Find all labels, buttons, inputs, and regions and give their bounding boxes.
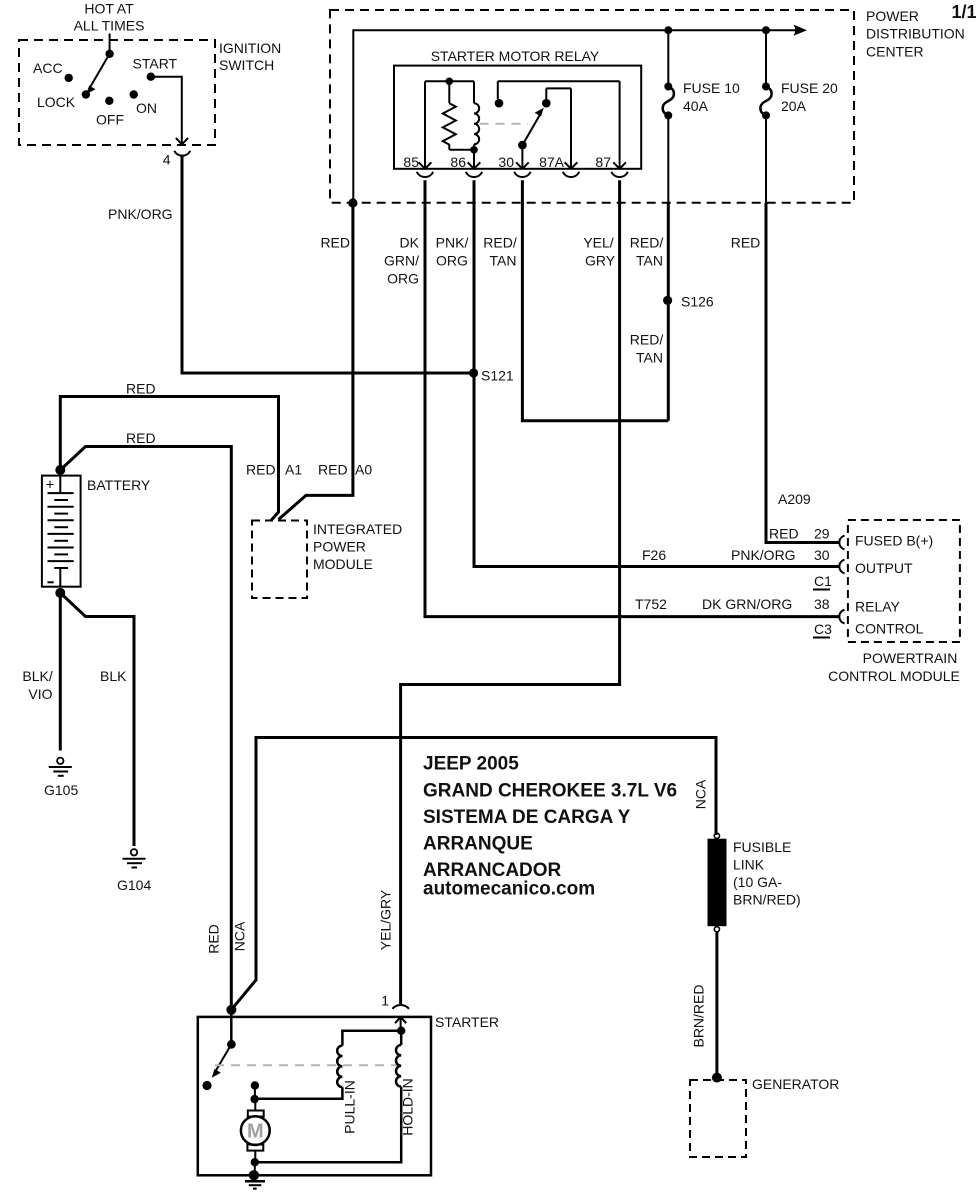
label RED | A1: [246, 462, 302, 478]
svg-text:30: 30: [498, 154, 514, 170]
starter solenoid switch arm: [212, 1040, 236, 1078]
svg-text:RELAY: RELAY: [855, 599, 901, 615]
ignition switch enclosure (dashed): [19, 40, 215, 145]
svg-text:GENERATOR: GENERATOR: [752, 1076, 839, 1092]
label DK GRN/ORG (3 lines): [384, 235, 420, 287]
label RELAY CONTROL: [855, 599, 924, 637]
starter solenoid contact (open): [202, 1081, 211, 1090]
svg-text:GRN/: GRN/: [384, 253, 419, 269]
svg-text:YEL/GRY: YEL/GRY: [378, 889, 394, 950]
svg-text:STARTER MOTOR RELAY: STARTER MOTOR RELAY: [431, 48, 600, 64]
wire DK GRN/ORG relay pin85 to PCM pin38: [425, 180, 839, 616]
relay internal wiring pin85 to coil: [425, 81, 474, 169]
svg-text:SWITCH: SWITCH: [219, 57, 274, 73]
svg-text:+: +: [46, 477, 55, 494]
wire pin1 to pull-in coil: [342, 1031, 401, 1046]
label RED (rotated): [206, 924, 222, 954]
svg-text:1: 1: [381, 993, 389, 1009]
fusible link FL1 (10 GA BRN/RED): [708, 833, 727, 932]
connector pin 1 of starter: [381, 993, 409, 1009]
svg-text:ON: ON: [136, 100, 157, 116]
svg-text:F26: F26: [642, 547, 666, 563]
ground G105: [44, 758, 78, 798]
svg-text:POWER: POWER: [313, 539, 366, 555]
svg-text:DISTRIBUTION: DISTRIBUTION: [866, 26, 965, 42]
svg-text:RED: RED: [769, 526, 799, 542]
svg-text:DK GRN/ORG: DK GRN/ORG: [702, 596, 792, 612]
junction bus to fuse 10: [664, 26, 672, 34]
wire starter B+ to solenoid contact: [230, 1010, 233, 1045]
svg-text:DK: DK: [400, 235, 420, 251]
wire PNK/ORG relay pin86 to PCM pin30: [474, 180, 839, 566]
wire RED fuse20 to PCM pin29: [766, 203, 839, 543]
PCM connector pin 29: [839, 536, 844, 550]
wire NCA starter junction to fusible link: [231, 738, 716, 1010]
wire YEL/GRY relay pin87 to starter pin1: [401, 180, 620, 1004]
svg-text:CONTROL: CONTROL: [855, 621, 924, 637]
label RED/TAN (pin30): [483, 235, 517, 269]
label RED/TAN (fuse 10): [630, 235, 664, 269]
label NCA (left): [232, 921, 248, 951]
wire BLK/VIO battery to G105: [59, 593, 62, 751]
label POWER DISTRIBUTION CENTER: [866, 8, 965, 60]
svg-text:BATTERY: BATTERY: [87, 477, 151, 493]
svg-text:S121: S121: [481, 368, 514, 384]
junction RED/NCA at starter B+: [226, 1005, 236, 1015]
label HOT AT ALL TIMES: [74, 1, 145, 34]
svg-text:S126: S126: [681, 294, 714, 310]
svg-text:CENTER: CENTER: [866, 44, 924, 60]
svg-text:TAN: TAN: [636, 350, 663, 366]
wire RED/TAN fuse10 to splice S126: [667, 203, 670, 421]
relay pin 30: [498, 154, 530, 177]
label RED | A0: [318, 462, 372, 478]
svg-text:85: 85: [403, 154, 419, 170]
svg-text:C1: C1: [814, 573, 832, 589]
svg-text:NCA: NCA: [693, 779, 709, 809]
starter case: [198, 1014, 499, 1175]
relay pin 86: [450, 154, 482, 177]
svg-text:BRN/RED: BRN/RED: [691, 984, 707, 1047]
powertrain control module enclosure (dashed): [848, 520, 960, 642]
svg-text:1/1: 1/1: [952, 2, 977, 22]
label C3 (underlined): [813, 621, 832, 638]
svg-text:RED: RED: [320, 235, 350, 251]
node START: [133, 56, 178, 81]
wire PNK/ORG ignition pin4 to splice S121: [182, 157, 471, 374]
label FUSED B(+): [855, 533, 933, 549]
svg-text:87: 87: [595, 154, 611, 170]
svg-text:A1: A1: [285, 462, 302, 478]
svg-text:GRAND CHEROKEE 3.7L V6: GRAND CHEROKEE 3.7L V6: [423, 781, 677, 802]
svg-text:4: 4: [163, 152, 171, 168]
label YEL/GRY (relay): [583, 235, 615, 269]
svg-text:JEEP 2005: JEEP 2005: [423, 754, 519, 775]
svg-text:PNK/ORG: PNK/ORG: [731, 547, 796, 563]
svg-text:RED/: RED/: [630, 332, 664, 348]
node OFF: [96, 97, 124, 128]
label PNK/ORG: [108, 206, 173, 222]
splice S126: [663, 294, 714, 310]
svg-text:ORG: ORG: [387, 271, 419, 287]
relay pin 87: [595, 154, 627, 177]
svg-text:PNK/ORG: PNK/ORG: [108, 206, 173, 222]
label C1 (underlined): [813, 573, 832, 590]
label BRN/RED (rotated): [691, 984, 707, 1047]
svg-text:HOT AT: HOT AT: [84, 1, 134, 17]
battery B1: [42, 476, 81, 587]
svg-text:RED: RED: [206, 924, 222, 954]
junction motor / pull-in coil: [250, 1095, 258, 1103]
label RED (fuse 20): [731, 235, 761, 251]
PCM connector pin 30: [839, 560, 844, 574]
battery positive terminal junction: [55, 465, 65, 475]
label POWERTRAIN CONTROL MODULE: [828, 650, 960, 684]
relay contact 87 (internal): [495, 81, 620, 169]
svg-text:38: 38: [814, 596, 830, 612]
relay switch arm from pin 30: [518, 108, 544, 169]
starter motor relay case: [394, 48, 641, 169]
relay coil bottom junction: [470, 146, 478, 154]
node LOCK: [37, 90, 90, 110]
starter case ground: [245, 1170, 265, 1188]
svg-text:START: START: [133, 56, 178, 72]
svg-text:BLK/: BLK/: [22, 668, 52, 684]
svg-text:C3: C3: [814, 621, 832, 637]
label F26 | PNK/ORG | 30: [642, 547, 830, 563]
starter motor contact: [251, 1081, 259, 1099]
svg-text:PULL-IN: PULL-IN: [342, 1080, 358, 1134]
svg-text:RED/: RED/: [630, 235, 664, 251]
label INTEGRATED POWER MODULE: [313, 521, 402, 572]
generator terminal junction: [712, 1073, 722, 1083]
fuse F20 (FUSE 20 20A): [760, 30, 838, 203]
pull-in coil: [255, 1046, 343, 1099]
svg-text:POWER: POWER: [866, 8, 919, 24]
wire START contact to connector pin 4: [151, 77, 188, 145]
svg-text:RED: RED: [126, 430, 156, 446]
label BLK/VIO: [22, 668, 52, 702]
node ACC: [33, 60, 73, 82]
svg-text:ARRANQUE: ARRANQUE: [423, 834, 533, 855]
svg-text:40A: 40A: [683, 98, 709, 114]
label T752 | DK GRN/ORG | 38: [635, 596, 830, 612]
svg-text:STARTER: STARTER: [435, 1014, 499, 1030]
svg-text:RED: RED: [126, 381, 156, 397]
label GENERATOR: [752, 1076, 839, 1092]
svg-text:automecanico.com: automecanico.com: [423, 879, 595, 900]
svg-text:G104: G104: [117, 877, 151, 893]
svg-text:TAN: TAN: [490, 253, 517, 269]
label IGNITION SWITCH: [219, 40, 281, 73]
junction pin1 / coils: [397, 1027, 405, 1035]
label FUSIBLE LINK (10 GA- BRN/RED): [733, 839, 801, 908]
relay internal wiring coil to pin86: [449, 144, 474, 168]
integrated power module enclosure (dashed): [252, 521, 307, 599]
relay contact 87A (internal): [542, 88, 571, 168]
wire RED battery to starter B+: [60, 447, 231, 1010]
junction bus to fuse 20: [762, 26, 770, 34]
label RED (A1 feed): [126, 381, 156, 397]
svg-text:ALL TIMES: ALL TIMES: [74, 18, 145, 34]
svg-text:FUSE 10: FUSE 10: [683, 80, 740, 96]
connector pin 4 of ignition switch: [163, 151, 191, 168]
wire RED/TAN relay pin30 drop: [522, 180, 668, 421]
svg-text:G105: G105: [44, 782, 78, 798]
svg-text:TAN: TAN: [636, 253, 663, 269]
svg-text:FUSE 20: FUSE 20: [781, 80, 838, 96]
svg-text:86: 86: [450, 154, 466, 170]
fuse F10 (FUSE 10 40A): [663, 30, 740, 203]
svg-text:POWERTRAIN: POWERTRAIN: [863, 650, 958, 666]
svg-text:M: M: [247, 1121, 264, 1143]
starter motor M: [241, 1099, 270, 1162]
starter pin1 entry arrow: [395, 1017, 406, 1031]
wire PDC B+ bus with arrow: [353, 25, 807, 203]
svg-text:30: 30: [814, 547, 830, 563]
label RED (A0 drop): [320, 235, 350, 251]
label A209: [778, 491, 811, 507]
title text JEEP 2005 ...: [423, 754, 677, 900]
svg-text:FUSIBLE: FUSIBLE: [733, 839, 791, 855]
label PULL-IN (rotated): [342, 1080, 358, 1134]
label NCA (right): [693, 779, 709, 809]
svg-text:BLK: BLK: [100, 668, 127, 684]
relay pin 87A: [539, 154, 579, 177]
relay coil resistor: [443, 103, 456, 144]
svg-text:LOCK: LOCK: [37, 94, 76, 110]
starter mechanical link (dashed): [215, 1064, 400, 1066]
label OUTPUT: [855, 560, 913, 576]
svg-text:CONTROL MODULE: CONTROL MODULE: [828, 668, 960, 684]
svg-text:(10 GA-: (10 GA-: [733, 874, 782, 890]
label BATTERY: [87, 477, 151, 493]
svg-text:20A: 20A: [781, 98, 807, 114]
svg-text:ORG: ORG: [436, 253, 468, 269]
wire RED battery to IPM pin A1: [60, 397, 278, 521]
label RED | 29: [769, 526, 830, 542]
wire RED from PDC to IPM pin A0: [279, 203, 353, 520]
svg-text:IGNITION: IGNITION: [219, 40, 281, 56]
svg-text:YEL/: YEL/: [583, 235, 613, 251]
battery negative terminal junction: [55, 588, 65, 598]
junction bus to RED A0 drop: [348, 198, 357, 207]
svg-text:MODULE: MODULE: [313, 556, 373, 572]
svg-text:OFF: OFF: [96, 112, 124, 128]
label PNK/ORG (relay): [436, 235, 469, 269]
wire BRN/RED fusible link to generator: [715, 932, 718, 1078]
svg-text:GRY: GRY: [585, 253, 616, 269]
relay pin 85: [403, 154, 433, 177]
svg-text:87A: 87A: [539, 154, 565, 170]
junction motor negative: [251, 1158, 259, 1175]
svg-text:A209: A209: [778, 491, 811, 507]
label page 1/1: [952, 2, 977, 22]
ignition switch wiper arm: [86, 50, 114, 95]
svg-text:PNK/: PNK/: [436, 235, 469, 251]
svg-text:FUSED B(+): FUSED B(+): [855, 533, 933, 549]
wire BLK battery to G104: [60, 593, 134, 846]
hold-in coil: [255, 1031, 401, 1163]
relay coil top junction: [446, 78, 454, 86]
node ON: [130, 90, 158, 116]
label RED/TAN (below S126): [630, 332, 664, 366]
svg-text:VIO: VIO: [28, 686, 52, 702]
wire hot-at-all-times feed stub: [109, 34, 111, 54]
label YEL/GRY (rotated): [378, 889, 394, 950]
svg-text:A0: A0: [355, 462, 372, 478]
svg-text:HOLD-IN: HOLD-IN: [400, 1078, 416, 1136]
svg-text:T752: T752: [635, 596, 667, 612]
svg-text:NCA: NCA: [232, 921, 248, 951]
svg-text:ACC: ACC: [33, 60, 63, 76]
PCM connector pin 38: [839, 610, 844, 624]
label BLK: [100, 668, 127, 684]
svg-text:OUTPUT: OUTPUT: [855, 560, 913, 576]
power distribution center enclosure (dashed): [330, 10, 854, 203]
svg-text:RED/: RED/: [483, 235, 517, 251]
splice S121: [469, 368, 514, 384]
label HOLD-IN (rotated): [400, 1078, 416, 1136]
svg-text:RED: RED: [731, 235, 761, 251]
relay mechanical link (dashed): [480, 123, 529, 125]
generator enclosure (dashed): [690, 1080, 746, 1157]
svg-text:INTEGRATED: INTEGRATED: [313, 521, 402, 537]
svg-text:RED: RED: [246, 462, 276, 478]
label RED (starter feed): [126, 430, 156, 446]
svg-text:BRN/RED): BRN/RED): [733, 892, 801, 908]
svg-text:SISTEMA DE CARGA Y: SISTEMA DE CARGA Y: [423, 807, 631, 828]
svg-text:RED: RED: [318, 462, 348, 478]
svg-text:LINK: LINK: [733, 857, 765, 873]
ground G104: [117, 849, 151, 893]
svg-text:29: 29: [814, 526, 830, 542]
relay coil inductor: [474, 103, 479, 144]
